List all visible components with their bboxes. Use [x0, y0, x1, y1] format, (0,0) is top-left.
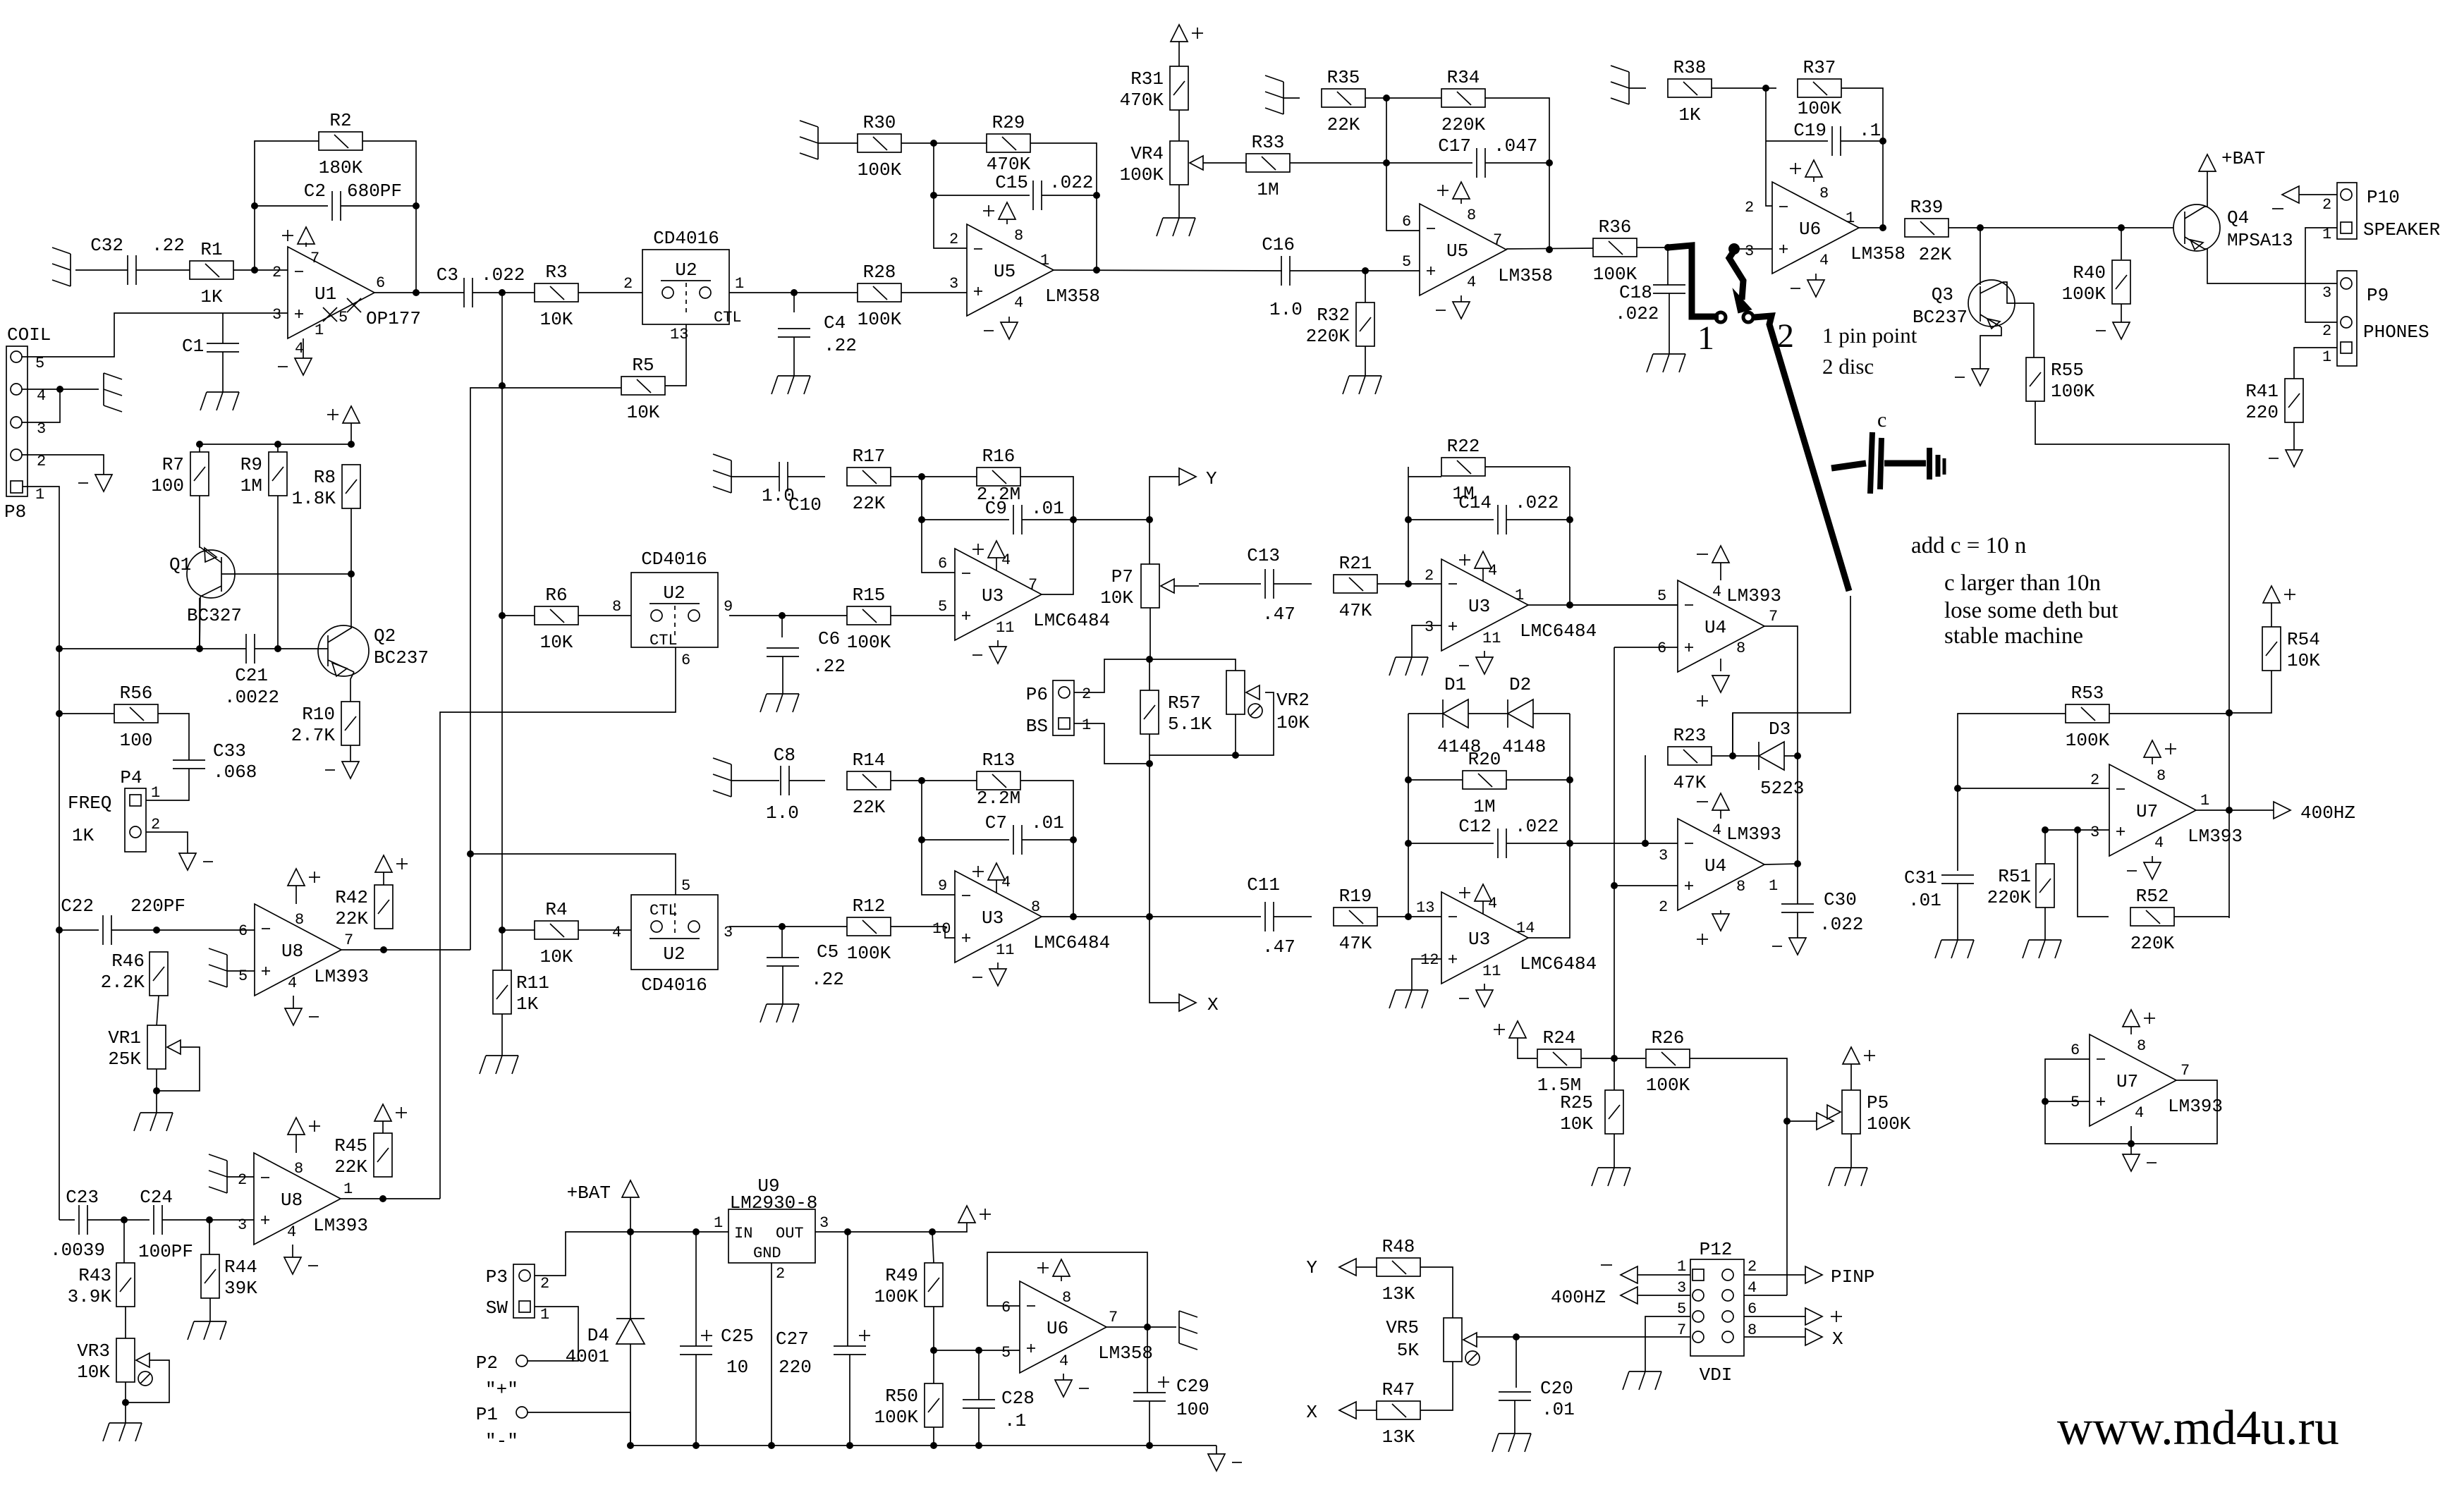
wire: [1073, 916, 1149, 917]
resistor R56: [114, 683, 158, 751]
capacitor C19: [1793, 120, 1881, 156]
power +V: [1171, 25, 1203, 42]
op-amp U3b: [932, 871, 1110, 963]
svg-text:R37: R37: [1803, 57, 1836, 78]
svg-text:R20: R20: [1468, 749, 1501, 770]
wire: [87, 1219, 150, 1221]
capacitor C16: [1262, 234, 1303, 320]
resistor R41: [2245, 379, 2303, 423]
wire: [1290, 270, 1420, 271]
svg-text:R2: R2: [329, 110, 351, 131]
wire: [470, 854, 676, 895]
svg-text:U8: U8: [281, 941, 303, 962]
wire: [1712, 755, 1759, 757]
svg-text:2: 2: [1425, 567, 1434, 585]
svg-text:R49: R49: [885, 1265, 918, 1286]
svg-text:P4: P4: [120, 767, 142, 788]
svg-text:.0039: .0039: [50, 1240, 105, 1261]
wire: [1957, 884, 1958, 940]
svg-text:10K: 10K: [1560, 1113, 1593, 1135]
resistor R15: [847, 585, 891, 653]
wire: [2130, 1027, 2132, 1034]
power -V: [1791, 280, 1824, 297]
junction: [499, 927, 506, 934]
svg-text:5.1K: 5.1K: [1168, 714, 1212, 735]
potentiometer VR5: [1386, 1317, 1480, 1365]
svg-text:.01: .01: [1542, 1399, 1575, 1420]
wire: [341, 949, 470, 951]
svg-text:4: 4: [2154, 834, 2164, 852]
svg-text:R5: R5: [632, 355, 654, 376]
wire: [2045, 829, 2109, 831]
power +V: [1459, 884, 1492, 901]
diode D2: [1508, 699, 1533, 728]
transistor Q3: [1968, 280, 2015, 329]
svg-text:LM393: LM393: [2168, 1096, 2223, 1117]
ground: [1492, 1434, 1531, 1452]
svg-text:COIL: COIL: [7, 324, 51, 346]
svg-text:U4: U4: [1704, 617, 1726, 638]
junction: [2226, 709, 2233, 716]
wire: [1948, 227, 2173, 228]
svg-text:R29: R29: [992, 112, 1025, 133]
ground: [771, 376, 810, 394]
svg-text:22K: 22K: [335, 908, 368, 929]
wire: [932, 1232, 934, 1263]
ground: [1935, 940, 1974, 958]
wire: [1764, 626, 1798, 864]
wire: [1637, 247, 1668, 248]
resistor R50: [874, 1383, 943, 1428]
svg-text:.47: .47: [1262, 936, 1295, 958]
resistor R23: [1668, 725, 1712, 793]
svg-text:.022: .022: [1515, 492, 1559, 513]
capacitor C27: [834, 1330, 870, 1355]
svg-text:2: 2: [540, 1275, 549, 1292]
power -V: [1055, 1380, 1089, 1397]
wire: [199, 444, 200, 452]
wire: [440, 647, 676, 1199]
wire rail: [630, 1445, 1216, 1446]
junction: [1405, 913, 1412, 920]
svg-text:SPEAKER: SPEAKER: [2363, 219, 2440, 240]
wire: [146, 832, 188, 853]
wire: [1637, 1274, 1690, 1276]
svg-text:2: 2: [949, 231, 958, 248]
junction: [1093, 192, 1100, 199]
svg-text:8: 8: [1819, 185, 1829, 202]
op-amp U5a: [967, 224, 1100, 316]
wire: [1042, 520, 1073, 594]
junction: [918, 516, 925, 523]
resistor R19: [1334, 886, 1377, 954]
svg-text:12: 12: [1420, 951, 1439, 969]
svg-text:BC237: BC237: [374, 647, 429, 668]
capacitor C14: [1458, 492, 1559, 534]
wire: [2109, 713, 2229, 714]
resistor R24: [1537, 1027, 1581, 1096]
svg-text:P7: P7: [1111, 566, 1133, 587]
wire: [1283, 97, 1300, 99]
wire: [1506, 248, 1593, 249]
wire: [1408, 713, 1443, 714]
wire: [782, 656, 783, 694]
svg-text:2: 2: [1082, 685, 1091, 703]
ground: [1623, 1371, 1661, 1390]
svg-text:R24: R24: [1543, 1027, 1576, 1049]
svg-text:R32: R32: [1317, 305, 1350, 326]
wire: [59, 1219, 75, 1221]
junction: [2226, 807, 2233, 814]
arrow: [1817, 1113, 1834, 1130]
junction: [499, 382, 506, 389]
wire: [1629, 87, 1646, 89]
junction: [1093, 267, 1100, 274]
wire: [1669, 293, 1670, 354]
wire: [1365, 97, 1441, 99]
label -: [1601, 1264, 1612, 1266]
svg-text:LM358: LM358: [1850, 243, 1905, 264]
svg-text:Y: Y: [1306, 1257, 1317, 1278]
junction: [1783, 1118, 1791, 1125]
wire: [22, 389, 99, 390]
svg-text:2: 2: [238, 1171, 247, 1189]
wire: [255, 141, 319, 270]
wire: [470, 388, 621, 950]
wire: [350, 442, 352, 444]
wire: [1766, 140, 1828, 142]
wire: [978, 1408, 980, 1446]
svg-text:2: 2: [1777, 317, 1794, 355]
resistor R5: [621, 355, 665, 423]
svg-text:4: 4: [1819, 252, 1829, 269]
power +V: [288, 1118, 320, 1135]
svg-text:9: 9: [724, 598, 733, 616]
svg-text:8: 8: [2157, 767, 2166, 785]
svg-text:.022: .022: [1515, 816, 1559, 837]
svg-text:1M: 1M: [1452, 483, 1474, 504]
svg-text:.1: .1: [1859, 120, 1881, 141]
svg-text:R15: R15: [853, 585, 886, 606]
svg-text:LM393: LM393: [313, 1215, 368, 1236]
power -V: [1208, 1454, 1242, 1471]
power - above: [1697, 793, 1729, 810]
wire bus: [1614, 647, 1615, 886]
wire: [527, 1307, 578, 1361]
svg-text:22K: 22K: [1327, 114, 1360, 135]
junction: [1566, 516, 1573, 523]
label +: [1831, 1311, 1842, 1322]
svg-text:R16: R16: [982, 446, 1016, 467]
resistor R43: [68, 1263, 135, 1307]
op-amp U7a: [2090, 764, 2243, 856]
svg-text:1: 1: [151, 784, 160, 802]
resistor R49: [874, 1263, 943, 1307]
junction: [1642, 840, 1649, 847]
junction: [1566, 840, 1573, 847]
wire: [934, 195, 1030, 196]
op-amp U3c: [1425, 559, 1597, 651]
wire: [630, 1344, 631, 1446]
svg-text:5: 5: [1657, 587, 1666, 605]
wire: [126, 1360, 169, 1402]
wire: [362, 141, 416, 293]
power -V: [1955, 369, 1989, 386]
junction: [930, 1347, 937, 1354]
junction: [779, 923, 786, 930]
switch contact 2: [1743, 312, 1753, 322]
svg-text:4: 4: [288, 974, 297, 992]
wire: [1149, 659, 1150, 690]
wire: [1386, 98, 1420, 231]
svg-text:10: 10: [726, 1357, 748, 1378]
svg-text:47K: 47K: [1339, 600, 1372, 621]
svg-text:R35: R35: [1327, 67, 1360, 88]
svg-text:D3: D3: [1769, 719, 1791, 740]
svg-text:2.7K: 2.7K: [291, 725, 336, 746]
svg-text:C19: C19: [1793, 120, 1826, 141]
junction: [274, 645, 281, 652]
junction: [791, 289, 798, 296]
svg-text:2 disc: 2 disc: [1822, 354, 1874, 379]
wire: [782, 927, 955, 938]
wire: [1637, 1295, 1690, 1296]
wire: [1006, 219, 1008, 224]
wire: [1022, 839, 1073, 841]
svg-text:4148: 4148: [1502, 736, 1546, 757]
wire: [1645, 756, 1646, 843]
power +V: [983, 202, 1016, 219]
resistor R38: [1668, 57, 1712, 126]
svg-text:D2: D2: [1509, 674, 1531, 695]
svg-text:X: X: [1207, 994, 1219, 1015]
resistor R37: [1798, 57, 1842, 119]
wire: [1744, 1295, 1787, 1296]
transistor Q2: [318, 625, 369, 676]
junction: [1383, 94, 1390, 102]
svg-text:LM393: LM393: [314, 966, 369, 987]
resistor R7: [151, 452, 209, 496]
wire: [1784, 755, 1798, 757]
svg-text:Q2: Q2: [374, 625, 396, 647]
wire: [158, 1047, 200, 1091]
wire: [1570, 604, 1678, 606]
capacitor C28: [963, 1388, 1035, 1431]
svg-text:R22: R22: [1447, 436, 1480, 457]
junction: [768, 1442, 775, 1449]
wire: [781, 616, 783, 637]
svg-text:lose some deth but: lose some deth but: [1944, 598, 2118, 623]
power +V: [2144, 740, 2176, 757]
wire: [997, 963, 999, 969]
wire: [2305, 228, 2337, 322]
svg-text:.22: .22: [811, 969, 844, 990]
svg-text:10K: 10K: [2287, 650, 2320, 671]
junction: [2118, 224, 2125, 231]
svg-text:3: 3: [238, 1216, 247, 1234]
junction: [251, 267, 258, 274]
resistor R57: [1140, 690, 1212, 735]
svg-text:47K: 47K: [1673, 772, 1707, 793]
svg-text:LM393: LM393: [1726, 824, 1781, 845]
svg-text:C7: C7: [985, 812, 1007, 833]
resistor R2: [319, 110, 363, 178]
svg-text:U8: U8: [281, 1190, 303, 1211]
svg-text:4001: 4001: [566, 1346, 609, 1367]
wire: [1365, 271, 1366, 302]
junction: [2226, 709, 2233, 716]
wire: [1365, 346, 1366, 376]
wire: [2045, 1101, 2090, 1102]
svg-text:4: 4: [1712, 821, 1721, 839]
wire: [1570, 604, 1678, 606]
wire: [22, 389, 60, 422]
wire: [922, 477, 955, 573]
connector P9: [2337, 271, 2357, 366]
wire: [996, 558, 997, 570]
potentiometer VR2: [1226, 671, 1310, 733]
ground: [760, 1004, 799, 1022]
svg-text:4: 4: [287, 1223, 296, 1241]
resistor R13: [977, 750, 1020, 809]
svg-text:3: 3: [1425, 618, 1434, 636]
svg-text:1M: 1M: [240, 475, 262, 496]
junction: [918, 836, 925, 843]
resistor R9: [240, 452, 287, 496]
connector P6: [1053, 680, 1074, 735]
arrow Y: [1179, 468, 1196, 485]
junction: [413, 289, 420, 296]
capacitor C4: [778, 312, 857, 356]
svg-text:C12: C12: [1458, 816, 1492, 837]
junction: [1664, 244, 1671, 251]
svg-text:.022: .022: [481, 264, 525, 286]
capacitor C5: [767, 941, 844, 990]
resistor R29: [987, 112, 1031, 175]
svg-text:R28: R28: [863, 262, 896, 283]
wire: [1815, 274, 1817, 280]
junction: [196, 645, 203, 652]
svg-text:1: 1: [1846, 209, 1855, 227]
arrow: [2282, 186, 2299, 203]
svg-text:BC327: BC327: [187, 605, 242, 626]
svg-text:9: 9: [938, 877, 947, 895]
junction: [499, 289, 506, 296]
svg-text:.01: .01: [1908, 890, 1941, 911]
wire: [1850, 1134, 1852, 1168]
capacitor C20: [1499, 1378, 1575, 1420]
svg-text:PINP: PINP: [1831, 1266, 1874, 1288]
wire: [350, 508, 352, 574]
wire: [1199, 583, 1261, 585]
power +V: [972, 541, 1005, 558]
resistor R40: [2062, 260, 2130, 305]
wire: [2121, 304, 2122, 322]
svg-text:10K: 10K: [540, 946, 573, 967]
capacitor C7: [985, 812, 1064, 855]
svg-text:8: 8: [1062, 1289, 1071, 1307]
wire: [2299, 194, 2337, 195]
wire: [1859, 227, 1884, 228]
svg-text:8: 8: [1736, 878, 1745, 896]
ground: [1389, 990, 1428, 1008]
wire: [1149, 916, 1261, 917]
resistor R32: [1306, 302, 1374, 347]
svg-text:C31: C31: [1904, 867, 1937, 888]
wire: [277, 496, 279, 649]
wire: [209, 1220, 210, 1254]
svg-text:8: 8: [1467, 207, 1476, 224]
svg-text:1: 1: [1769, 877, 1778, 895]
svg-text:C23: C23: [66, 1187, 99, 1208]
wire: [695, 1232, 697, 1346]
wire: [1174, 585, 1199, 587]
wire: [922, 781, 955, 895]
power +V: [622, 1180, 639, 1197]
wire: [1460, 295, 1462, 302]
svg-text:.022: .022: [1049, 172, 1093, 193]
svg-text:R39: R39: [1910, 197, 1944, 218]
power -V: [972, 969, 1006, 986]
wire: [2293, 422, 2295, 450]
svg-text:1: 1: [1040, 252, 1049, 269]
svg-text:100K: 100K: [847, 632, 891, 653]
resistor R4: [535, 899, 578, 967]
wire: [1614, 1134, 1615, 1168]
junction: [1879, 137, 1886, 145]
resistor R14: [847, 750, 891, 818]
switch arrowhead: [1735, 293, 1750, 312]
resistor R26: [1646, 1027, 1690, 1096]
svg-text:R23: R23: [1673, 725, 1707, 746]
wire: [630, 1231, 728, 1233]
wire: [1744, 1316, 1805, 1317]
wire: [1030, 143, 1097, 270]
svg-text:C8: C8: [774, 745, 795, 766]
svg-text:10K: 10K: [1276, 712, 1310, 733]
wire: [781, 927, 783, 958]
wire: [255, 648, 328, 649]
junction: [2074, 826, 2081, 833]
svg-text:R53: R53: [2071, 683, 2104, 704]
wire: [1420, 1267, 1453, 1318]
power -V: [78, 475, 112, 491]
svg-text:VR4: VR4: [1130, 143, 1164, 164]
svg-text:100K: 100K: [874, 1286, 919, 1307]
wire: [1042, 840, 1073, 917]
wire: [1149, 917, 1179, 1003]
svg-text:7: 7: [344, 931, 353, 949]
svg-text:R31: R31: [1130, 68, 1164, 90]
wire: [1506, 843, 1645, 844]
svg-text:400HZ: 400HZ: [1551, 1287, 1606, 1308]
arrow Y: [1339, 1259, 1356, 1276]
power -V: [284, 1257, 318, 1274]
junction: [348, 570, 355, 577]
svg-text:100K: 100K: [1867, 1113, 1911, 1135]
svg-text:1: 1: [343, 1180, 353, 1198]
svg-text:13K: 13K: [1382, 1283, 1415, 1304]
wire: [2174, 916, 2229, 917]
wire: [1061, 1276, 1062, 1281]
svg-text:.47: .47: [1262, 604, 1295, 625]
svg-text:"+": "+": [485, 1379, 518, 1400]
capacitor C8: [766, 745, 799, 824]
junction: [1729, 752, 1736, 759]
svg-text:R17: R17: [853, 446, 886, 467]
wire: [891, 476, 977, 477]
svg-text:10K: 10K: [1100, 587, 1133, 609]
